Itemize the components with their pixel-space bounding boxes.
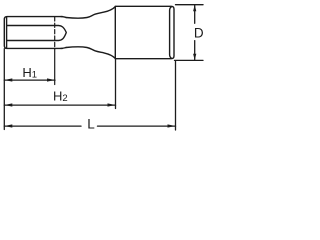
hex end bottom arc	[61, 47, 66, 50]
H1 right extension line	[54, 49, 56, 85]
L right extension line	[175, 61, 177, 130]
H1 left arrowhead	[4, 78, 12, 81]
neck and flare top	[66, 7, 115, 19]
L dimension line right segment	[98, 125, 176, 127]
hex depth dashed line	[54, 17, 56, 49]
D top extension line	[176, 4, 204, 6]
hex end top arc	[61, 16, 66, 19]
svg-text:L: L	[87, 117, 95, 132]
H2 dimension line	[4, 104, 115, 106]
L dimension line left segment	[4, 125, 81, 127]
left extension line	[3, 49, 5, 130]
D dimension line upper segment	[194, 5, 196, 23]
D bottom extension line	[175, 59, 204, 61]
socket body outline	[115, 6, 174, 58]
L right arrowhead	[168, 124, 176, 127]
D dimension line lower segment	[194, 41, 196, 61]
L left arrowhead	[4, 124, 12, 127]
D bottom arrowhead	[193, 54, 196, 61]
H2 left arrowhead	[4, 103, 12, 106]
bit tip chamfer line	[6, 17, 8, 48]
H1 dimension line	[4, 79, 55, 81]
svg-text:D: D	[194, 26, 204, 41]
H2 right extension line	[115, 59, 117, 109]
H2 right arrowhead	[108, 103, 116, 106]
neck and flare bottom	[66, 47, 115, 59]
hex facet line lower	[7, 33, 66, 41]
socket rear chamfer line	[170, 7, 172, 59]
hex facet line upper	[7, 26, 66, 33]
D top arrowhead	[193, 5, 196, 12]
hex bit outline	[4, 6, 174, 58]
socket front face	[114, 7, 116, 59]
H1 right arrowhead	[47, 78, 55, 81]
